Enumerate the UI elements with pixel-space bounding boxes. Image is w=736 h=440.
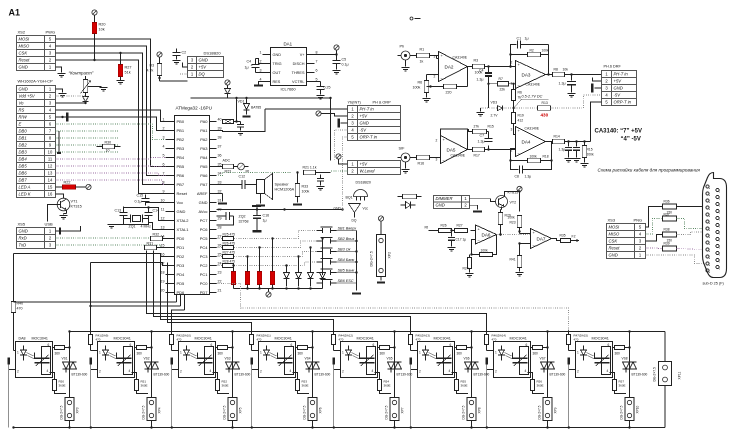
capacitor C14 crystal load: [145, 212, 153, 214]
svg-text:R1: R1: [420, 48, 425, 52]
svg-text:MOC3041: MOC3041: [357, 337, 374, 341]
red resistor column 1: [231, 272, 236, 285]
channel 6 input wire: [410, 345, 412, 351]
wire PH-T in net to MCU PA1: [217, 109, 266, 132]
svg-text:GND: GND: [614, 86, 623, 91]
svg-text:LED K: LED K: [19, 192, 31, 197]
wire net PD3: [91, 263, 166, 266]
wire XTAL1 to crystal: [149, 223, 166, 230]
svg-text:Yb(INT): Yb(INT): [348, 101, 362, 105]
svg-text:12: 12: [48, 164, 53, 169]
wire bus PD to keys row2: [217, 241, 317, 248]
op-amp DA3 CA3140E: [516, 61, 546, 89]
channel 7 triac VS7 BT139-600: [547, 332, 549, 428]
channel 6 triac VS6 BT139-600: [471, 332, 473, 428]
svg-text:C14: C14: [153, 209, 160, 213]
svg-text:R7: R7: [499, 77, 503, 81]
channel 2 opto triac: [124, 347, 133, 375]
svg-text:33: 33: [218, 181, 222, 185]
svg-text:2: 2: [163, 127, 165, 131]
svg-text:11: 11: [161, 208, 165, 212]
ground at R33: [297, 197, 299, 203]
trimmer resistor R21 contrast pot: [83, 80, 88, 93]
channel 7 gate resistor 360: [528, 373, 533, 380]
DA1 pin 6 THRES: [307, 72, 315, 74]
svg-text:THRES: THRES: [292, 71, 305, 75]
pin 21 PD7: [210, 292, 217, 294]
pin 27 PC5: [210, 238, 217, 240]
svg-text:MOC3041: MOC3041: [275, 337, 292, 341]
svg-text:360E: 360E: [619, 384, 626, 388]
svg-text:VT1: VT1: [71, 200, 78, 204]
svg-text:37: 37: [218, 145, 222, 149]
svg-text:MOC3041: MOC3041: [434, 337, 451, 341]
svg-text:1.3μ: 1.3μ: [525, 175, 532, 179]
svg-text:C2: C2: [182, 51, 187, 55]
net marker: [410, 17, 413, 20]
svg-text:RxD: RxD: [19, 236, 27, 241]
svg-text:XS3: XS3: [608, 218, 616, 223]
svg-text:360E: 360E: [302, 384, 309, 388]
pin 15 PD1: [166, 247, 175, 249]
channel 4 series resistor 470: [249, 335, 253, 345]
svg-text:VS7: VS7: [540, 357, 546, 361]
svg-text:BT139-600: BT139-600: [397, 373, 413, 377]
wire bus channel1 feed: [176, 295, 178, 303]
power +5V at LED A: [86, 184, 91, 189]
channel 2 series resistor 470: [88, 335, 92, 345]
channel 2 opto LED: [103, 350, 109, 355]
wire MISO from XS2 to MCU PB6: [56, 46, 166, 176]
svg-text:RS: RS: [19, 108, 25, 113]
svg-text:DISCH: DISCH: [293, 62, 305, 66]
svg-text:2: 2: [99, 370, 101, 374]
svg-text:0.1μ: 0.1μ: [342, 63, 349, 67]
channel 3 output connector XP5: [228, 398, 237, 421]
capacitor C16 1u: [256, 210, 258, 216]
svg-text:DG-2×7.5: DG-2×7.5: [620, 405, 624, 419]
svg-text:AREF: AREF: [197, 191, 208, 196]
svg-text:PNG: PNG: [634, 218, 643, 223]
svg-text:XP4: XP4: [158, 407, 162, 413]
svg-text:VD1: VD1: [238, 100, 245, 104]
sensor DS18B20 TO-92: [354, 190, 368, 197]
svg-text:XP6: XP6: [319, 407, 323, 413]
power +5V at VT2: [517, 186, 522, 191]
svg-text:R20: R20: [99, 23, 106, 27]
svg-text:VS2: VS2: [144, 357, 150, 361]
svg-text:BT139-600: BT139-600: [154, 373, 170, 377]
svg-text:R15: R15: [587, 148, 593, 152]
svg-text:PA0: PA0: [200, 119, 208, 124]
svg-text:SB5 Банк: SB5 Банк: [338, 269, 355, 273]
svg-text:4: 4: [525, 369, 527, 373]
svg-text:470: 470: [339, 338, 344, 342]
transistor VT1 KT315: [57, 198, 70, 211]
resistor R33 100k: [295, 184, 300, 197]
svg-text:R8: R8: [554, 68, 558, 72]
wire LCD DB7 to MCU: [56, 180, 166, 185]
svg-text:1μ: 1μ: [525, 37, 529, 41]
svg-text:E: E: [19, 122, 22, 127]
svg-text:15: 15: [161, 244, 165, 248]
svg-text:4: 4: [129, 369, 131, 373]
channel 1 cathode bar: [8, 358, 11, 365]
inductor L1 at PA0: [223, 120, 234, 124]
svg-text:R26: R26: [441, 224, 447, 228]
svg-text:Ph: Ph: [400, 45, 405, 49]
svg-text:DQ: DQ: [352, 219, 357, 223]
wire DA1 V+ to +5V: [315, 54, 337, 56]
wire VT2 collector to +5V: [505, 192, 520, 197]
channel 6 gate resistor 360: [452, 373, 457, 380]
svg-text:DB3: DB3: [19, 150, 28, 155]
svg-text:C5: C5: [342, 58, 347, 62]
wire reference node dashed: [481, 107, 498, 109]
svg-text:15: 15: [48, 185, 53, 190]
svg-text:4.7k: 4.7k: [147, 69, 154, 73]
channel 1 opto arrows: [27, 353, 34, 357]
svg-text:100k: 100k: [481, 249, 489, 253]
svg-text:6: 6: [48, 343, 50, 347]
svg-text:USB: USB: [45, 222, 54, 227]
svg-text:XTAL1: XTAL1: [177, 227, 190, 232]
label 0.5-2.7V DC with pointer: [514, 100, 522, 109]
svg-text:PD4: PD4: [177, 272, 186, 277]
capacitor C9 1.3u: [571, 75, 573, 81]
svg-text:8: 8: [316, 51, 318, 55]
wire DA7 output: [552, 239, 561, 241]
wire +5V rail down: [519, 192, 521, 212]
wire pot wiper to ground: [88, 86, 102, 88]
svg-text:1.3μ: 1.3μ: [478, 140, 485, 144]
svg-text:R36: R36: [664, 200, 670, 204]
svg-text:GND: GND: [19, 87, 28, 92]
DA1 pin 1 GND: [263, 54, 271, 56]
svg-text:R18: R18: [543, 155, 549, 159]
svg-text:2: 2: [495, 370, 497, 374]
resistor R27 51k: [118, 65, 123, 77]
wire Vcc row to cap: [146, 202, 166, 203]
channel 4 opto triac: [285, 347, 294, 375]
svg-text:PB6: PB6: [177, 173, 185, 178]
svg-text:C16: C16: [263, 214, 270, 218]
svg-text:PD0: PD0: [177, 236, 186, 241]
wire bus channel2 feed: [180, 295, 182, 307]
svg-text:360E: 360E: [222, 384, 229, 388]
wire XS5 TxD to MCU PD1: [56, 245, 166, 248]
wire DA5 feedback loop: [441, 129, 468, 150]
capacitor bar at R/W: [61, 116, 63, 118]
wire LCD GND to ground: [56, 89, 63, 93]
svg-text:10: 10: [161, 199, 165, 203]
resistor R20 10k pull-up: [94, 15, 96, 22]
svg-text:MISO: MISO: [609, 232, 620, 237]
svg-text:0.1μ: 0.1μ: [135, 200, 142, 204]
svg-text:22k: 22k: [500, 88, 506, 92]
svg-text:6: 6: [608, 343, 610, 347]
audio jack input 1 Ph: [401, 51, 410, 60]
svg-text:2: 2: [577, 370, 579, 374]
svg-text:2: 2: [260, 370, 262, 374]
resistor R34b input: [398, 196, 403, 198]
svg-text:KT315: KT315: [71, 205, 82, 209]
resistor R18 100k feedback DA4: [511, 149, 528, 161]
pin 32 AREF: [210, 193, 217, 195]
channel 2 resistor 360 opto to triac: [135, 347, 137, 349]
svg-text:Схема распайки кабеля для прог: Схема распайки кабеля для программирован…: [598, 167, 701, 173]
svg-text:1.3μ: 1.3μ: [559, 148, 566, 152]
svg-text:PC3: PC3: [200, 254, 209, 259]
capacitor bar at XS4 GND: [56, 230, 60, 232]
power +5V of matrix: [268, 289, 270, 292]
capacitor bar at DRF GND: [595, 87, 602, 89]
svg-text:R15: R15: [488, 125, 494, 129]
diode VD6: [320, 273, 326, 279]
channel 2 opto arrows: [109, 353, 116, 357]
svg-text:ICL7660: ICL7660: [281, 87, 297, 92]
wire bus to channel 6: [154, 251, 411, 333]
svg-text:4: 4: [290, 369, 292, 373]
svg-text:DB6: DB6: [19, 171, 28, 176]
svg-text:PD3: PD3: [177, 263, 186, 268]
svg-text:+5V: +5V: [614, 79, 623, 84]
pin 1 PB0: [166, 121, 175, 123]
capacitor C13 crystal load: [120, 212, 128, 214]
channel 7 cathode bar: [486, 358, 489, 365]
svg-text:PC6: PC6: [200, 227, 209, 232]
diode VD1 BAT85: [245, 97, 247, 99]
channel 7 series resistor 470: [484, 335, 488, 345]
svg-text:220: 220: [446, 91, 452, 95]
svg-text:4: 4: [47, 369, 49, 373]
channel 4 input wire: [251, 345, 253, 351]
svg-text:R38: R38: [664, 228, 670, 232]
svg-text:R39: R39: [664, 242, 670, 246]
svg-text:360E: 360E: [59, 384, 66, 388]
svg-text:C12: C12: [239, 175, 246, 179]
svg-text:R35: R35: [560, 234, 566, 238]
wire LCD Vdd +5V: [56, 95, 86, 97]
channel 7 opto triac: [520, 347, 529, 375]
resistor R15 27k: [473, 129, 487, 133]
pin 24 PC2: [210, 265, 217, 267]
svg-text:R28 475: R28 475: [223, 260, 236, 264]
wire DA4 out to ORP-T row: [591, 102, 602, 142]
svg-text:WH1602A-YGH-CP: WH1602A-YGH-CP: [18, 79, 53, 84]
svg-text:GND: GND: [19, 229, 28, 234]
svg-text:1: 1: [495, 351, 497, 355]
svg-text:34: 34: [218, 172, 222, 176]
svg-text:5: 5: [163, 154, 165, 158]
channel 1 gate resistor 360: [50, 373, 55, 380]
svg-text:DA3: DA3: [522, 73, 531, 78]
red resistor column 2: [245, 272, 250, 285]
thermistor Rt: [234, 166, 238, 168]
svg-text:100k: 100k: [542, 49, 550, 53]
svg-text:HCM1206A: HCM1206A: [275, 188, 295, 192]
resistor R2 100k feedback DA3: [528, 52, 541, 56]
wire PH-T in: [265, 108, 348, 110]
svg-text:6: 6: [130, 343, 132, 347]
svg-text:R16: R16: [418, 162, 425, 166]
svg-text:DIMMER: DIMMER: [436, 196, 453, 201]
svg-text:R23: R23: [225, 170, 232, 174]
wire LCD RS to MCU: [56, 110, 166, 122]
svg-text:13: 13: [48, 171, 53, 176]
svg-text:XP9: XP9: [554, 407, 558, 413]
wire bus keys row4: [217, 262, 317, 266]
svg-text:GND: GND: [334, 207, 342, 211]
wire bus PD to keys row1: [217, 231, 317, 239]
svg-text:7: 7: [163, 172, 165, 176]
pin 22 PC0: [210, 283, 217, 285]
svg-text:XP2: XP2: [388, 252, 392, 259]
svg-text:MOSI: MOSI: [609, 225, 621, 230]
capacitor C4 1u at DA1: [252, 64, 260, 66]
pin 19 PD5: [166, 283, 175, 285]
svg-text:6: 6: [211, 343, 213, 347]
svg-text:PB4: PB4: [177, 155, 185, 160]
pin 11 GND: [166, 211, 175, 213]
svg-text:C1: C1: [517, 37, 522, 41]
wire DS18B20 GND: [183, 63, 188, 68]
svg-text:XP8: XP8: [478, 407, 482, 413]
svg-text:6: 6: [291, 343, 293, 347]
resistor R27b: [455, 228, 468, 232]
svg-text:Rt: Rt: [246, 170, 250, 174]
net flag F2 zero-cross: [571, 240, 577, 242]
pin 39 PA1: [210, 130, 217, 132]
svg-text:R14: R14: [554, 135, 560, 139]
svg-text:ZQ2: ZQ2: [239, 215, 246, 219]
capacitor C10: [568, 142, 570, 147]
pin 25 PC3: [210, 256, 217, 258]
svg-text:Vo: Vo: [19, 101, 25, 106]
svg-text:51k: 51k: [125, 71, 131, 75]
resistor R8: [553, 72, 565, 76]
speaker BA1 HCM1206A: [245, 184, 257, 186]
svg-text:2: 2: [434, 75, 436, 79]
svg-text:LED A: LED A: [19, 185, 31, 190]
pin 20 PD6: [166, 292, 175, 294]
capacitor C4b 1.3u: [488, 67, 490, 73]
resistor R16: [410, 157, 417, 159]
resistor R35 zero-cross: [561, 238, 571, 242]
wire AVcc analog row: [217, 209, 343, 211]
svg-text:1μ: 1μ: [263, 219, 267, 223]
svg-text:100k: 100k: [302, 190, 310, 194]
channel 2 gate resistor 360: [132, 373, 137, 380]
svg-text:27k: 27k: [474, 125, 480, 129]
wire VT1 base: [48, 205, 61, 222]
channel 8 output connector XP10: [625, 398, 634, 421]
wire +5V row stub: [593, 78, 602, 82]
wire R3 to DQ: [159, 76, 161, 82]
svg-text:18: 18: [161, 271, 165, 275]
capacitor C13b: [320, 175, 322, 179]
svg-text:PC1: PC1: [200, 272, 209, 277]
wire MOSI from XS2 to MCU PB5: [56, 39, 166, 167]
resistor R39 150: [663, 246, 677, 251]
svg-text:SB6 ESC: SB6 ESC: [338, 279, 354, 283]
svg-text:9: 9: [163, 190, 165, 194]
svg-text:19: 19: [161, 280, 165, 284]
svg-text:MOC3041: MOC3041: [114, 337, 131, 341]
wire L1 to power rail: [236, 98, 238, 122]
channel 7 resistor 360 opto to triac: [531, 347, 533, 349]
svg-text:GND: GND: [199, 58, 208, 63]
svg-text:PB3: PB3: [177, 146, 185, 151]
svg-text:XTAL2: XTAL2: [177, 218, 190, 223]
svg-text:MOC3041: MOC3041: [32, 337, 48, 341]
wire LCD DB5 to MCU: [56, 165, 166, 168]
channel 8 series resistor 470: [566, 335, 570, 345]
channel 6 opto LED: [423, 350, 429, 355]
svg-text:R3: R3: [150, 64, 155, 68]
svg-text:R33: R33: [302, 185, 309, 189]
resistor R41: [517, 256, 521, 268]
wire GND row: [470, 205, 478, 209]
svg-text:BT139-600: BT139-600: [315, 373, 331, 377]
svg-text:XP7: XP7: [401, 407, 405, 413]
svg-text:DA1: DA1: [284, 42, 293, 47]
diode VD8: [227, 85, 229, 88]
svg-text:C7: C7: [480, 134, 485, 138]
svg-text:DG-2×7.5: DG-2×7.5: [653, 367, 657, 382]
svg-text:1: 1: [577, 351, 579, 355]
svg-text:+5V: +5V: [360, 114, 369, 119]
wire bus to channel 4: [168, 263, 252, 333]
svg-text:23: 23: [218, 271, 222, 275]
channel 5 series resistor 470: [331, 335, 335, 345]
channel 5 gate resistor 360: [375, 373, 380, 380]
svg-text:11: 11: [48, 157, 53, 162]
svg-text:PH & ORP: PH & ORP: [373, 101, 392, 105]
pin 6 PB5: [166, 166, 175, 168]
svg-text:R24: R24: [463, 267, 469, 271]
wire XS3 MISO to DB25: [646, 219, 663, 235]
ground of reference node: [480, 108, 482, 112]
svg-text:ORP-T in: ORP-T in: [614, 100, 632, 105]
svg-text:PD6: PD6: [177, 290, 186, 295]
svg-text:14: 14: [48, 178, 53, 183]
pin 31 GND: [210, 202, 217, 204]
wire DA3 output to R8: [546, 74, 553, 76]
wire DS18B20 +5V: [179, 73, 188, 75]
ground crystal caps: [112, 222, 124, 225]
diode VD5: [308, 273, 314, 279]
svg-text:360E: 360E: [141, 384, 148, 388]
svg-text:XP5: XP5: [239, 407, 243, 413]
pin 30 AVcc: [210, 211, 217, 213]
svg-text:360: 360: [298, 352, 304, 356]
svg-text:CA3140E: CA3140E: [525, 127, 540, 131]
svg-text:3: 3: [163, 136, 165, 140]
svg-text:1: 1: [419, 351, 421, 355]
channel 3 triac VS3 BT139-600: [232, 332, 234, 428]
channel 1 opto LED: [21, 350, 27, 355]
svg-text:R25 475: R25 475: [223, 233, 236, 237]
svg-text:DG-2×7.5: DG-2×7.5: [370, 251, 374, 266]
svg-text:Rt: Rt: [425, 226, 429, 230]
svg-text:CSK: CSK: [19, 51, 28, 56]
svg-text:Speaker: Speaker: [275, 183, 290, 187]
svg-text:R41: R41: [510, 258, 516, 262]
svg-text:2: 2: [511, 61, 513, 65]
svg-text:DG-2×7.5: DG-2×7.5: [385, 405, 389, 419]
crystal ZQ2 32768 RTC: [217, 215, 223, 217]
